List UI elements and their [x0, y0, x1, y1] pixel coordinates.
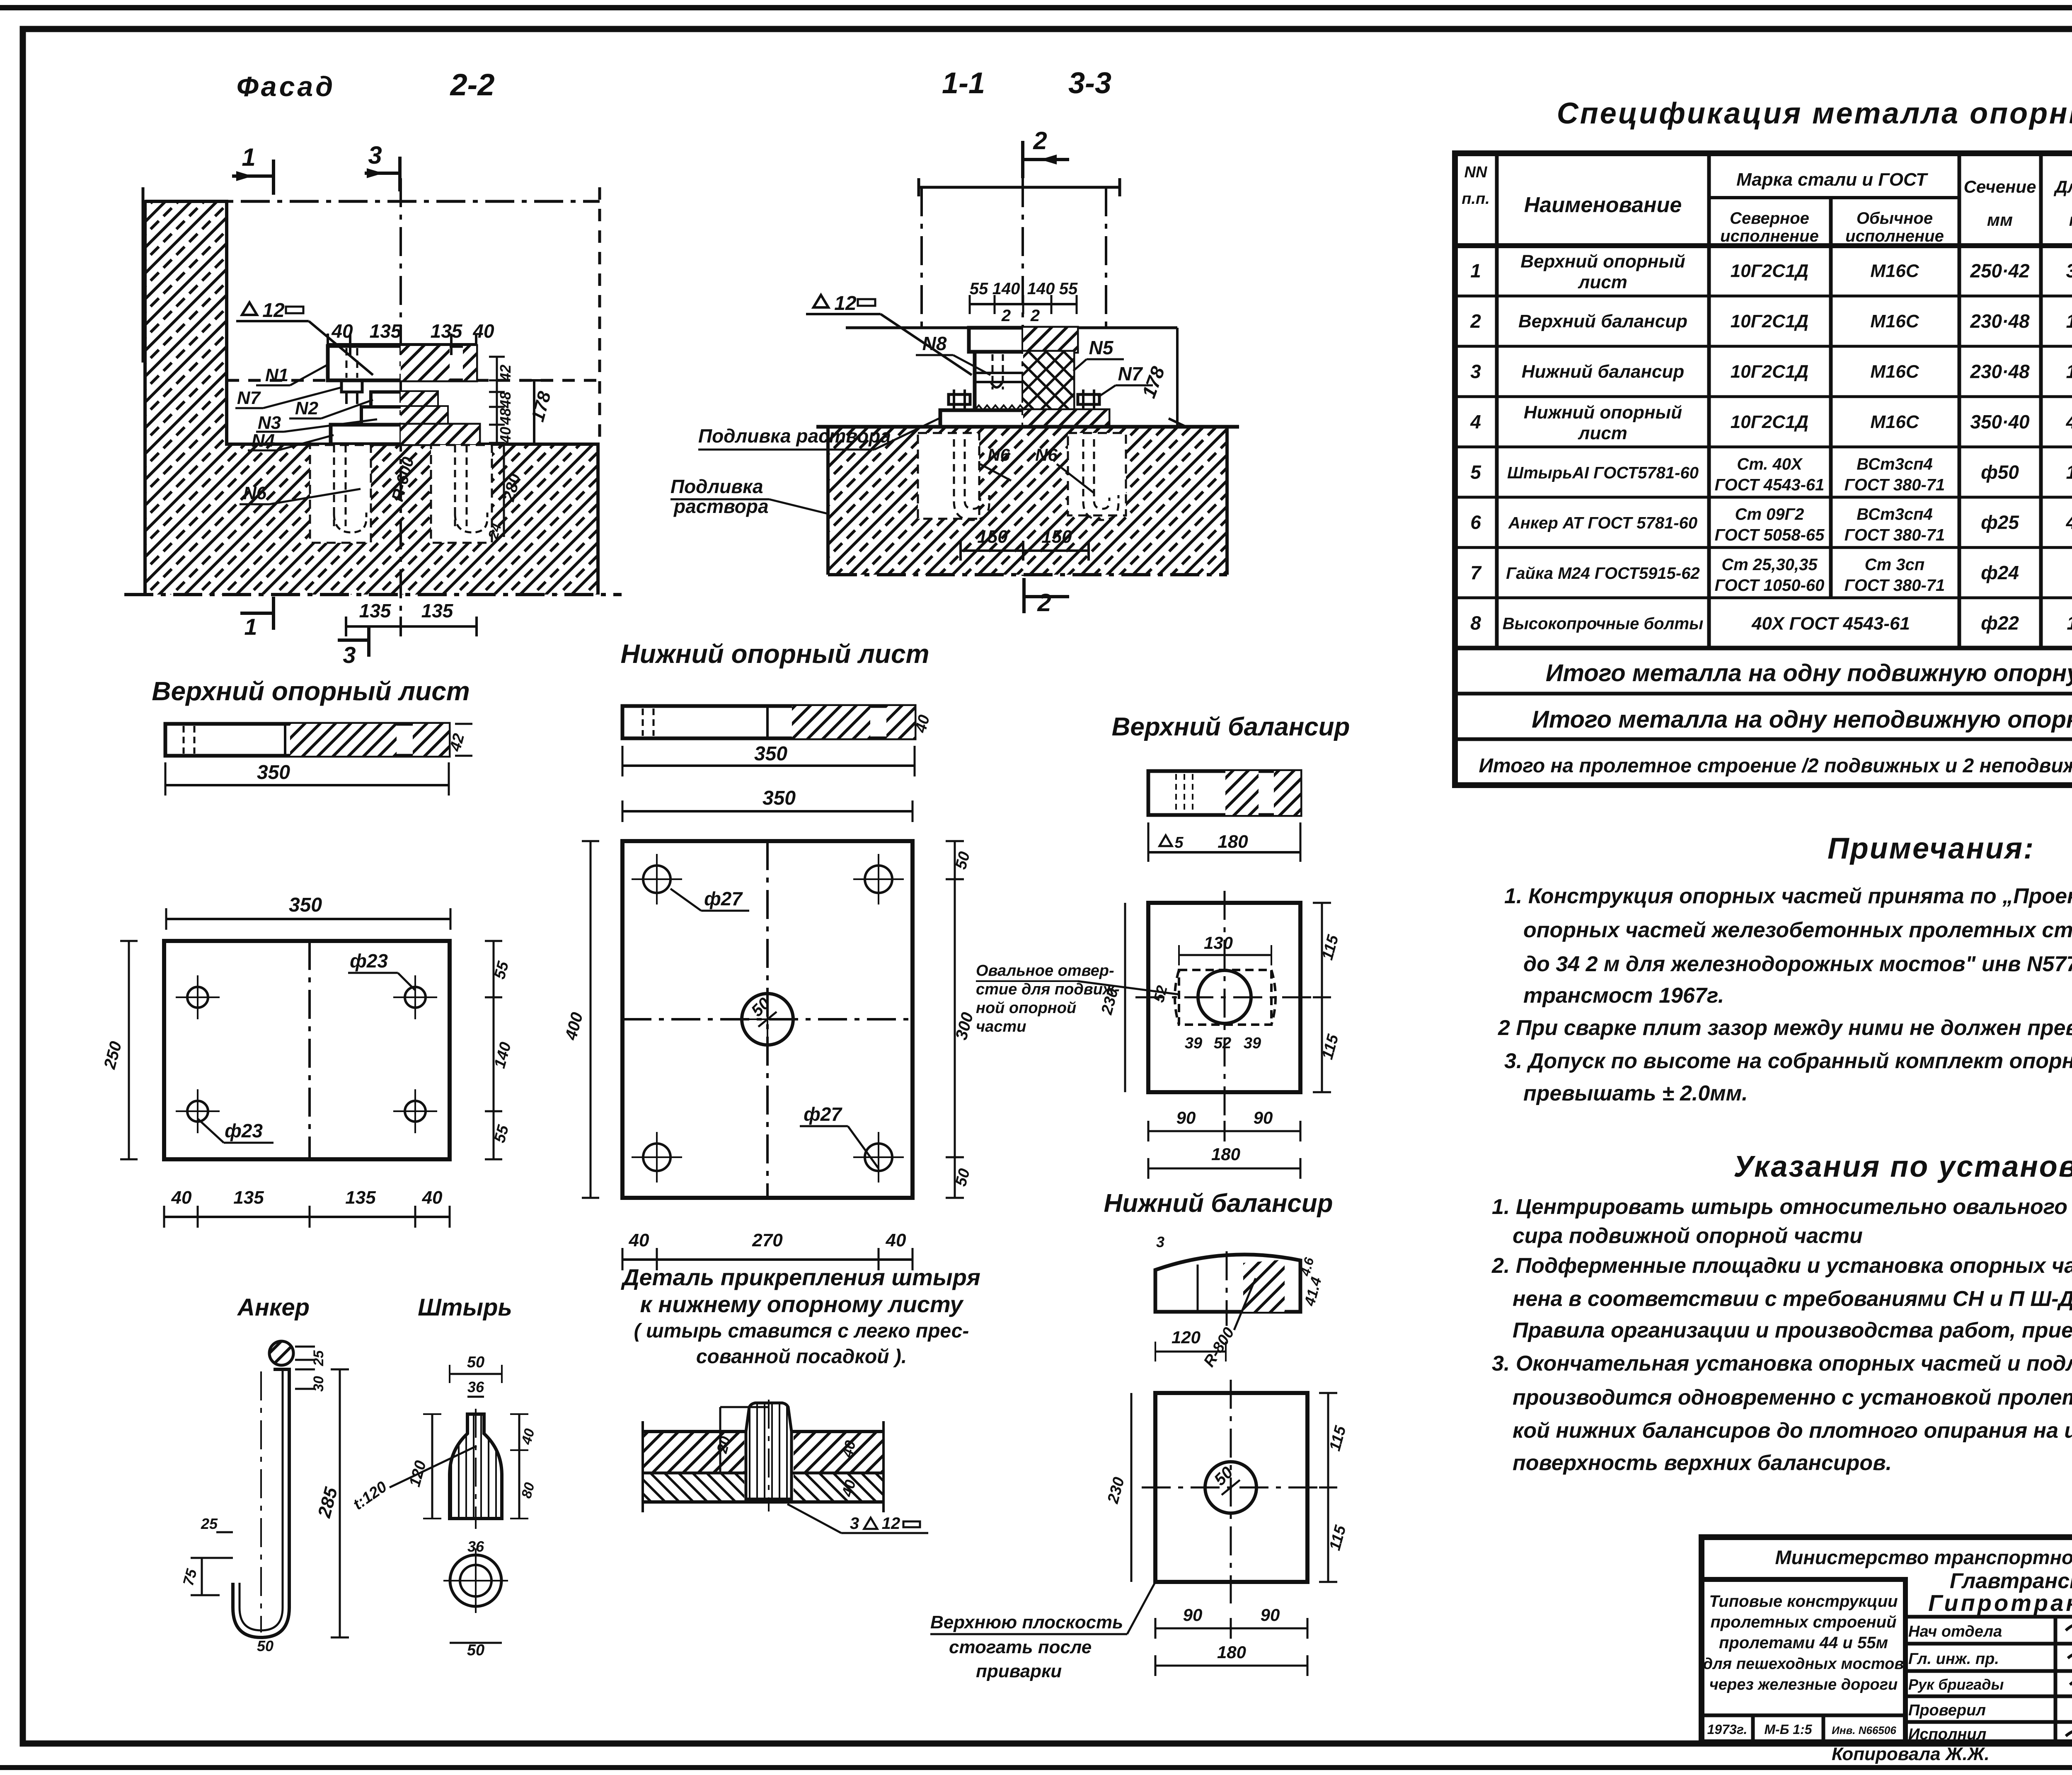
- vb 180 dim: [1148, 851, 1300, 854]
- svg-text:400: 400: [2066, 411, 2072, 433]
- svg-text:10Г2С1Д: 10Г2С1Д: [1731, 412, 1808, 432]
- svg-text:42: 42: [497, 365, 514, 382]
- svg-text:Типовые конструкции: Типовые конструкции: [1709, 1592, 1898, 1611]
- svg-text:Нижний опорный: Нижний опорный: [1524, 402, 1682, 423]
- svg-text:270: 270: [752, 1230, 783, 1250]
- svg-text:2: 2: [1037, 589, 1051, 617]
- svg-text:Рук бригады: Рук бригады: [1908, 1676, 2004, 1693]
- svg-text:40: 40: [422, 1187, 443, 1208]
- weld mark 12 left: [813, 295, 828, 307]
- svg-text:90: 90: [1176, 1108, 1196, 1127]
- svg-text:Министерство транспортного стр: Министерство транспортного строительства…: [1775, 1546, 2072, 1568]
- svg-text:140: 140: [992, 280, 1020, 298]
- svg-text:ГОСТ 1050-60: ГОСТ 1050-60: [1715, 576, 1825, 595]
- svg-text:40: 40: [886, 1230, 906, 1250]
- svg-text:Нижний балансир: Нижний балансир: [1104, 1189, 1333, 1218]
- nol center hole f50: [742, 994, 793, 1045]
- svg-text:М16С: М16С: [1870, 261, 1920, 281]
- fasad bolt dashed in plate: [346, 348, 348, 378]
- svg-text:мм: мм: [1987, 210, 2013, 230]
- svg-text:350: 350: [2066, 260, 2072, 282]
- vol bottom dims 40 135 135 40: [164, 1216, 450, 1218]
- section mark 3 bottom: [338, 638, 369, 642]
- svg-text:Анкер АТ ГОСТ 5781-60: Анкер АТ ГОСТ 5781-60: [1508, 514, 1697, 532]
- svg-text:ф27: ф27: [804, 1103, 842, 1125]
- svg-text:3: 3: [368, 141, 382, 169]
- nol side view: [622, 706, 915, 738]
- section mark 2 top: [1021, 141, 1024, 178]
- svg-text:N4: N4: [252, 430, 275, 451]
- vol 350 dim: [165, 784, 449, 786]
- anker 285 dim: [339, 1369, 341, 1637]
- fasad top dashdot line: [143, 200, 600, 203]
- svg-text:кой нижних балансиров до плотн: кой нижних балансиров до плотного опиран…: [1513, 1419, 2072, 1443]
- detal drawing: [643, 1432, 744, 1473]
- svg-text:1. Конструкция опорных част: 1. Конструкция опорных частей принята по…: [1504, 884, 2072, 908]
- svg-text:180: 180: [1217, 1642, 1246, 1662]
- svg-text:180: 180: [1218, 832, 1248, 852]
- svg-text:135: 135: [431, 320, 463, 342]
- svg-text:55: 55: [970, 280, 988, 298]
- svg-text:180: 180: [2066, 310, 2072, 332]
- svg-text:ф50: ф50: [1981, 461, 2019, 483]
- svg-text:трансмост 1967г.: трансмост 1967г.: [1523, 984, 1724, 1008]
- fasad bottom plate N4: [331, 425, 479, 444]
- shtyr right 40 80 dims: [518, 1414, 520, 1519]
- nb right dims 115 115: [1327, 1393, 1329, 1582]
- shtyr 50 36 top dims: [450, 1373, 502, 1375]
- svg-text:N1: N1: [265, 365, 288, 385]
- fasad top plate N1: [328, 346, 476, 380]
- svg-text:лист: лист: [1578, 272, 1627, 293]
- svg-text:Копировала Ж.Ж.: Копировала Ж.Ж.: [1832, 1744, 1990, 1764]
- svg-text:Подливка раствора: Подливка раствора: [698, 425, 891, 447]
- svg-text:Спецификация металла опорных: Спецификация металла опорных частей: [1557, 97, 2072, 130]
- svg-text:110: 110: [2067, 612, 2072, 634]
- svg-text:ГОСТ 380-71: ГОСТ 380-71: [1844, 476, 1945, 494]
- svg-text:поверхность верхних балансиров: поверхность верхних балансиров.: [1513, 1451, 1892, 1475]
- vb right dims 115 115: [1321, 903, 1323, 1092]
- bolt N8 dashed: [992, 354, 994, 389]
- svg-text:Исполнил: Исполнил: [1908, 1726, 1986, 1743]
- title block: [1702, 1537, 2072, 1742]
- svg-text:2 При сварке плит зазор ме: 2 При сварке плит зазор между ними не до…: [1498, 1016, 2072, 1040]
- svg-text:350·40: 350·40: [1970, 411, 2030, 433]
- dim 178 right: [1176, 328, 1179, 427]
- svg-text:ШтырьАІ ГОСТ5781-60: ШтырьАІ ГОСТ5781-60: [1507, 464, 1699, 482]
- svg-text:3: 3: [343, 642, 356, 668]
- svg-text:ной опорной: ной опорной: [976, 999, 1076, 1017]
- svg-text:Марка стали и ГОСТ: Марка стали и ГОСТ: [1736, 169, 1928, 190]
- anchor pockets dashed: [918, 433, 979, 519]
- svg-text:5: 5: [1174, 834, 1184, 851]
- svg-text:8: 8: [1470, 612, 1481, 634]
- svg-text:1: 1: [242, 143, 255, 171]
- vol holes: [187, 987, 208, 1008]
- 1-1 top plate: [969, 328, 1077, 352]
- svg-text:ВСт3сп4: ВСт3сп4: [1857, 455, 1933, 473]
- svg-text:ф27: ф27: [704, 888, 743, 909]
- anker 25 75 dims left: [216, 1531, 233, 1533]
- svg-text:2-2: 2-2: [450, 68, 495, 102]
- svg-text:3. Окончательная установка: 3. Окончательная установка опорных часте…: [1492, 1352, 2072, 1376]
- 1-1 top line 178: [846, 326, 1177, 329]
- svg-text:1973г.: 1973г.: [1707, 1722, 1748, 1737]
- svg-text:414: 414: [2066, 512, 2072, 533]
- svg-text:52: 52: [1214, 1035, 1231, 1052]
- svg-text:2: 2: [1470, 310, 1481, 332]
- detal weld label 3-12: [787, 1504, 841, 1533]
- page top edge: [0, 5, 2072, 10]
- svg-text:ГОСТ 380-71: ГОСТ 380-71: [1844, 526, 1945, 544]
- svg-text:N8: N8: [922, 333, 947, 354]
- svg-text:2: 2: [1001, 307, 1011, 325]
- svg-text:М16С: М16С: [1870, 311, 1920, 331]
- svg-text:ВСт3сп4: ВСт3сп4: [1857, 505, 1933, 524]
- svg-text:N7: N7: [237, 388, 261, 408]
- svg-text:25: 25: [201, 1515, 218, 1532]
- nb center hole: [1205, 1462, 1256, 1513]
- svg-text:25: 25: [311, 1350, 327, 1366]
- vol right dims 55 140 55: [493, 941, 495, 1159]
- svg-text:40: 40: [171, 1187, 192, 1208]
- vol plan 350 dim top: [166, 918, 450, 920]
- svg-text:120: 120: [1172, 1328, 1201, 1347]
- nol bottom dims 40 270 40: [622, 1258, 913, 1261]
- svg-text:Проверил: Проверил: [1908, 1702, 1986, 1719]
- detal dims: [720, 1406, 769, 1408]
- svg-text:приварки: приварки: [976, 1661, 1062, 1681]
- svg-text:М16С: М16С: [1870, 412, 1920, 432]
- svg-text:ф24: ф24: [1981, 562, 2019, 583]
- svg-text:Нижний балансир: Нижний балансир: [1522, 362, 1685, 382]
- svg-text:ф25: ф25: [1981, 512, 2019, 533]
- fasad nut N7: [341, 380, 362, 392]
- fasad dim 280 and 24: [503, 444, 505, 537]
- svg-text:3: 3: [850, 1514, 859, 1533]
- fasad upper balansir N2: [371, 392, 437, 407]
- svg-text:Длина: Длина: [2054, 177, 2072, 196]
- svg-text:36: 36: [467, 1378, 484, 1395]
- svg-text:350: 350: [289, 894, 322, 916]
- svg-text:10Г2С1Д: 10Г2С1Д: [1731, 362, 1808, 382]
- svg-text:сира подвижной опорной части: сира подвижной опорной части: [1513, 1224, 1863, 1248]
- fasad girder bottom dash line: [227, 379, 327, 382]
- svg-text:Гипротрансмост: Гипротрансмост: [1928, 1590, 2072, 1616]
- svg-text:Инв. N66506: Инв. N66506: [1832, 1724, 1896, 1736]
- vb plan: [1148, 903, 1300, 1092]
- section mark 3 top: [365, 172, 400, 175]
- 1-1 foundation block: [828, 427, 1227, 575]
- svg-text:130: 130: [1204, 933, 1233, 953]
- fasad anchor pockets white: [310, 445, 371, 543]
- svg-text:ф22: ф22: [1981, 612, 2019, 634]
- svg-text:150: 150: [1041, 527, 1072, 547]
- svg-text:п.п.: п.п.: [1462, 190, 1490, 208]
- svg-text:2: 2: [1030, 307, 1040, 325]
- vb oval hole: [1179, 970, 1271, 1025]
- svg-text:NN: NN: [1464, 164, 1488, 181]
- svg-text:( штырь ставится с легко прес-: ( штырь ставится с легко прес-: [634, 1320, 969, 1342]
- svg-text:Примечания:: Примечания:: [1828, 832, 2035, 865]
- svg-text:Гайка М24 ГОСТ5915-62: Гайка М24 ГОСТ5915-62: [1506, 564, 1699, 583]
- serration (podlivka): [975, 405, 1024, 410]
- svg-text:Верхний балансир: Верхний балансир: [1518, 311, 1687, 331]
- svg-text:Верхний опорный лист: Верхний опорный лист: [152, 676, 470, 706]
- svg-text:через железные дороги: через железные дороги: [1709, 1676, 1898, 1693]
- svg-text:части: части: [976, 1018, 1026, 1035]
- svg-text:90: 90: [1183, 1605, 1203, 1625]
- svg-text:лист: лист: [1578, 423, 1627, 443]
- 1-1 bottom plate: [940, 410, 1109, 427]
- svg-text:Верхний балансир: Верхний балансир: [1112, 713, 1350, 741]
- svg-text:Ст 09Г2: Ст 09Г2: [1735, 505, 1804, 524]
- vb left dim 230: [1124, 903, 1126, 1092]
- svg-text:Ст. 40Х: Ст. 40Х: [1737, 455, 1803, 473]
- svg-text:к нижнему опорному листу: к нижнему опорному листу: [640, 1291, 964, 1317]
- svg-text:90: 90: [1254, 1108, 1273, 1127]
- svg-text:10Г2С1Д: 10Г2С1Д: [1731, 311, 1808, 331]
- nol plan: [622, 841, 913, 1198]
- svg-text:Подливка: Подливка: [670, 476, 763, 497]
- svg-text:150: 150: [977, 527, 1008, 547]
- vol plan: [164, 941, 450, 1159]
- vb side view: [1148, 771, 1300, 815]
- nol left dim 400: [590, 841, 592, 1198]
- svg-text:350: 350: [762, 787, 796, 809]
- svg-text:Верхний опорный: Верхний опорный: [1520, 251, 1685, 272]
- svg-text:12: 12: [882, 1514, 900, 1533]
- svg-text:Нижний опорный лист: Нижний опорный лист: [620, 639, 929, 669]
- svg-text:Указания по установке: Указания по установке: [1733, 1150, 2072, 1183]
- svg-text:пролетами 44 и 55м: пролетами 44 и 55м: [1719, 1634, 1888, 1652]
- svg-text:3: 3: [1470, 361, 1481, 382]
- nol plan 350 top dim: [622, 810, 913, 813]
- svg-text:превышать ± 2.0мм.: превышать ± 2.0мм.: [1523, 1081, 1748, 1105]
- svg-text:39: 39: [1244, 1035, 1261, 1052]
- vb oval dims: [1179, 954, 1271, 956]
- fasad bottom dims 135 135: [346, 625, 477, 628]
- svg-text:180: 180: [1211, 1144, 1240, 1164]
- svg-text:Фасад: Фасад: [237, 71, 336, 102]
- vol side view: [165, 724, 449, 756]
- svg-text:N3: N3: [258, 413, 281, 433]
- svg-text:3. Допуск по высоте на собр: 3. Допуск по высоте на собранный комплек…: [1504, 1049, 2072, 1073]
- fasad pier bottom dashdot: [124, 593, 622, 596]
- vol left dim 250: [128, 941, 130, 1159]
- svg-text:мм: мм: [2069, 210, 2072, 230]
- nb left dim 230: [1130, 1393, 1133, 1582]
- svg-text:N2: N2: [295, 398, 319, 418]
- svg-text:40: 40: [629, 1230, 649, 1250]
- svg-text:ГОСТ 5058-65: ГОСТ 5058-65: [1715, 526, 1825, 544]
- svg-text:Верхнюю плоскость: Верхнюю плоскость: [930, 1612, 1123, 1632]
- fasad dim 178: [533, 380, 535, 444]
- svg-text:50: 50: [467, 1354, 484, 1371]
- fasad concrete pier L-shape: [145, 201, 598, 595]
- svg-text:Высокопрочные болты: Высокопрочные болты: [1503, 615, 1704, 633]
- svg-text:7: 7: [1470, 562, 1482, 583]
- svg-text:50: 50: [467, 1642, 484, 1659]
- svg-text:Нач отдела: Нач отдела: [1908, 1623, 2002, 1640]
- section mark 1 top: [232, 174, 274, 178]
- nb plan: [1155, 1393, 1307, 1582]
- svg-text:N5: N5: [1089, 337, 1114, 358]
- svg-text:опорных частей железобетонных: опорных частей железобетонных пролетных …: [1523, 918, 2072, 942]
- section mark 2 bottom: [1022, 578, 1026, 613]
- svg-text:Штырь: Штырь: [418, 1294, 512, 1321]
- nol holes f27: [643, 866, 670, 893]
- svg-text:раствора: раствора: [673, 496, 769, 517]
- svg-text:90: 90: [1261, 1605, 1280, 1625]
- 1-1 balancers block: [975, 352, 1073, 410]
- svg-text:Итого на пролетное строение /2: Итого на пролетное строение /2 подвижных…: [1479, 755, 2072, 777]
- svg-text:Северное: Северное: [1730, 209, 1809, 227]
- svg-text:4: 4: [1470, 411, 1481, 433]
- svg-text:нена в соответствии с требован: нена в соответствии с требованиями СН и …: [1513, 1287, 2072, 1311]
- nb 120 dim: [1155, 1351, 1226, 1353]
- svg-text:180: 180: [2066, 361, 2072, 382]
- svg-text:пролетных строений: пролетных строений: [1710, 1613, 1896, 1631]
- svg-text:120: 120: [2066, 461, 2072, 483]
- fasad right dims 42 48 48 40: [496, 357, 498, 443]
- dim 150 150: [961, 549, 1089, 552]
- shtyr left 120 dim: [431, 1414, 433, 1519]
- svg-text:Наименование: Наименование: [1524, 193, 1682, 217]
- svg-text:40Х ГОСТ 4543-61: 40Х ГОСТ 4543-61: [1751, 614, 1910, 634]
- svg-text:Анкер: Анкер: [237, 1294, 310, 1321]
- svg-text:55: 55: [1059, 280, 1078, 298]
- svg-text:250·42: 250·42: [1970, 260, 2030, 282]
- svg-text:40: 40: [497, 427, 514, 444]
- svg-text:36: 36: [467, 1538, 484, 1555]
- anchor bolts with nuts 1-1: [953, 389, 955, 410]
- svg-text:1-1: 1-1: [942, 67, 985, 100]
- svg-text:исполнение: исполнение: [1845, 227, 1944, 245]
- svg-text:39: 39: [1185, 1035, 1202, 1052]
- svg-text:ГОСТ 380-71: ГОСТ 380-71: [1844, 576, 1945, 595]
- svg-text:135: 135: [345, 1187, 376, 1208]
- svg-text:10Г2С1Д: 10Г2С1Д: [1731, 261, 1808, 281]
- svg-text:30: 30: [311, 1376, 327, 1392]
- svg-text:230·48: 230·48: [1970, 361, 2030, 382]
- svg-text:N6: N6: [1035, 445, 1058, 464]
- svg-text:350: 350: [257, 762, 290, 784]
- svg-text:исполнение: исполнение: [1720, 227, 1819, 245]
- svg-text:12: 12: [262, 300, 285, 322]
- vb weld 5 mark: [1159, 835, 1172, 846]
- svg-text:Деталь прикрепления штыря: Деталь прикрепления штыря: [621, 1264, 980, 1290]
- svg-text:ф23: ф23: [350, 950, 388, 972]
- svg-text:Ст 3сп: Ст 3сп: [1865, 556, 1925, 574]
- svg-text:Итого металла на одну подвижну: Итого металла на одну подвижную опорную …: [1546, 660, 2072, 687]
- svg-text:135: 135: [421, 600, 454, 621]
- svg-text:6: 6: [1470, 512, 1481, 533]
- svg-text:350: 350: [754, 743, 787, 765]
- svg-text:Гл. инж. пр.: Гл. инж. пр.: [1908, 1650, 1999, 1668]
- svg-text:50: 50: [257, 1637, 274, 1654]
- svg-text:Ст 25,30,35: Ст 25,30,35: [1721, 556, 1818, 574]
- svg-text:1. Центрировать штырь относ: 1. Центрировать штырь относительно оваль…: [1492, 1195, 2072, 1219]
- svg-text:3-3: 3-3: [1068, 67, 1111, 100]
- svg-text:Обычное: Обычное: [1857, 209, 1933, 227]
- svg-text:135: 135: [233, 1187, 264, 1208]
- svg-text:48: 48: [497, 392, 514, 409]
- anker drawing: [269, 1341, 293, 1365]
- svg-text:ф23: ф23: [225, 1120, 263, 1141]
- nb side view curved: [1155, 1255, 1300, 1312]
- detal plug: [746, 1403, 792, 1499]
- nol right dims 50 300 50: [954, 841, 956, 1198]
- svg-text:48: 48: [497, 408, 514, 425]
- svg-text:ГОСТ 4543-61: ГОСТ 4543-61: [1715, 476, 1825, 494]
- svg-text:производится одновременно с ус: производится одновременно с установкой п…: [1513, 1386, 2072, 1410]
- svg-text:М-Б 1:5: М-Б 1:5: [1764, 1722, 1812, 1737]
- svg-text:М16С: М16С: [1870, 362, 1920, 382]
- shtyr drawing: [450, 1414, 502, 1519]
- svg-text:стогать после: стогать после: [949, 1637, 1092, 1657]
- girder top line: [919, 186, 1120, 189]
- svg-text:Правила организации и производ: Правила организации и производства работ…: [1513, 1318, 2072, 1342]
- svg-text:Сечение: Сечение: [1964, 177, 2036, 196]
- svg-text:N6: N6: [988, 445, 1010, 464]
- svg-text:135: 135: [359, 600, 392, 621]
- svg-text:12: 12: [834, 293, 857, 314]
- svg-text:1: 1: [244, 614, 257, 640]
- svg-text:N6: N6: [243, 483, 267, 503]
- svg-text:Итого металла на одну неподвиж: Итого металла на одну неподвижную опорну…: [1532, 706, 2072, 733]
- vb bottom dims 90 90 180: [1148, 1130, 1300, 1132]
- svg-text:сованной посадкой ).: сованной посадкой ).: [696, 1346, 907, 1368]
- anker top-right dims: [295, 1346, 315, 1348]
- svg-text:до 34 2 м для железнодорожных: до 34 2 м для железнодорожных мостов" ин…: [1523, 952, 2072, 976]
- svg-text:2. Подферменные площадки и: 2. Подферменные площадки и установка опо…: [1491, 1254, 2072, 1278]
- fasad center line: [399, 178, 402, 621]
- section mark 1 bottom: [240, 612, 274, 615]
- svg-text:230·48: 230·48: [1970, 310, 2030, 332]
- svg-text:3: 3: [1156, 1233, 1164, 1250]
- svg-text:135: 135: [370, 320, 402, 342]
- weld mark 12: [242, 302, 257, 315]
- svg-text:5: 5: [1470, 461, 1481, 483]
- svg-text:для пешеходных мостов: для пешеходных мостов: [1703, 1655, 1904, 1673]
- girder edge dashdot verticals: [920, 187, 923, 327]
- J hooks: [954, 439, 989, 520]
- page bottom edge: [0, 1765, 2072, 1770]
- svg-text:Овальное отвер-: Овальное отвер-: [976, 962, 1114, 979]
- fasad anchor rods dashed: [333, 445, 335, 526]
- fasad lower balansir N3: [361, 407, 447, 425]
- nol side 350 dim: [622, 764, 915, 767]
- nb bottom dims 90 90 180: [1155, 1627, 1307, 1630]
- shtyr bottom view: [450, 1555, 501, 1606]
- svg-text:2: 2: [1033, 127, 1047, 155]
- svg-text:N7: N7: [1118, 363, 1143, 385]
- svg-text:1: 1: [1470, 260, 1481, 282]
